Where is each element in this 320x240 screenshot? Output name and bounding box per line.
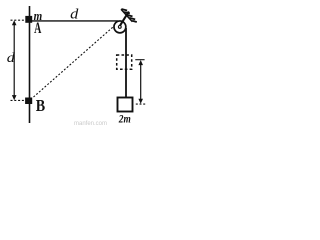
svg-text:A: A bbox=[34, 20, 41, 37]
svg-text:manfen.com: manfen.com bbox=[74, 121, 107, 126]
svg-text:d: d bbox=[7, 51, 16, 66]
svg-text:2m: 2m bbox=[118, 113, 131, 125]
svg-text:d: d bbox=[70, 6, 79, 22]
svg-text:B: B bbox=[36, 96, 45, 115]
